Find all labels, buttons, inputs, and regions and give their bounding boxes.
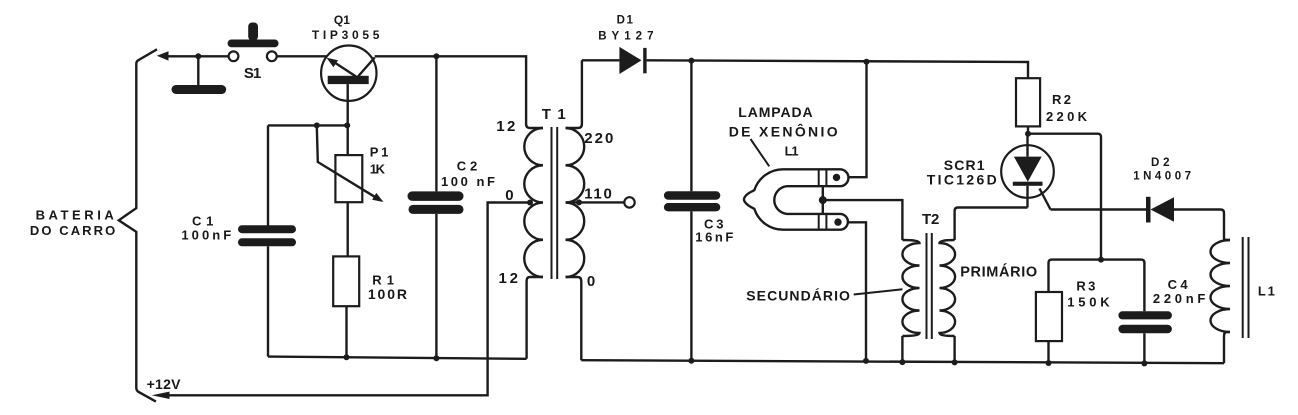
node trigger junction bbox=[819, 196, 827, 204]
svg-text:R3: R3 bbox=[1076, 279, 1095, 294]
svg-text:L1: L1 bbox=[785, 144, 799, 159]
wire top-left to S1 bbox=[162, 55, 229, 57]
svg-text:DE XENÔNIO: DE XENÔNIO bbox=[729, 123, 838, 140]
wire L1 bottom bbox=[1224, 332, 1230, 363]
svg-text:C1: C1 bbox=[192, 213, 213, 228]
svg-text:T1: T1 bbox=[542, 106, 566, 123]
terminal open circle 110 bbox=[624, 197, 634, 207]
T2 core bbox=[926, 233, 928, 339]
wire D2 to L1 coil bbox=[1174, 210, 1230, 241]
wire T2 primary top to SCR cathode bbox=[955, 208, 1028, 241]
wire trigger to T2 secondary bbox=[823, 200, 903, 240]
node junction at terminal stem bbox=[195, 53, 201, 59]
svg-text:D1: D1 bbox=[617, 15, 634, 27]
svg-text:Q1: Q1 bbox=[334, 13, 350, 27]
svg-text:L1: L1 bbox=[1258, 283, 1275, 298]
node T1 110 tap bbox=[576, 199, 582, 205]
wire T1 secondary bottom to rail bbox=[566, 277, 582, 360]
wire T1 left bottom to rail bbox=[527, 277, 543, 359]
node wiper junction bbox=[314, 122, 320, 128]
svg-text:1N4007: 1N4007 bbox=[1133, 171, 1191, 183]
svg-text:T2: T2 bbox=[922, 211, 939, 228]
svg-text:110: 110 bbox=[584, 186, 612, 203]
svg-text:0: 0 bbox=[505, 187, 513, 204]
svg-text:16nF: 16nF bbox=[695, 230, 733, 245]
node R1 bottom bbox=[344, 354, 350, 360]
resistor R1 100R bbox=[333, 256, 359, 306]
node T1 center tap left bbox=[527, 200, 533, 206]
SCR1 TIC126D bbox=[1001, 134, 1054, 210]
node T2 primary bottom bbox=[952, 359, 958, 365]
T1 core bbox=[551, 127, 553, 279]
wire R3 to C4 top bbox=[1049, 260, 1145, 312]
arrow +12V to battery bbox=[152, 392, 170, 399]
svg-text:220nF: 220nF bbox=[1153, 291, 1205, 306]
node lamp bottom bbox=[863, 358, 869, 364]
wire lamp top electrode bbox=[848, 62, 866, 178]
resistor R3 150K bbox=[1036, 292, 1062, 341]
svg-text:C4: C4 bbox=[1168, 277, 1189, 292]
L1 core bbox=[1242, 237, 1244, 338]
diode D1 BY127 bbox=[582, 59, 620, 61]
svg-text:BY127: BY127 bbox=[598, 30, 653, 42]
bottom rail left bbox=[268, 357, 527, 359]
xenon flash tube L1 bbox=[744, 169, 848, 229]
svg-text:S1: S1 bbox=[244, 65, 261, 82]
gate wire to D2 bbox=[1051, 208, 1147, 210]
transformer T2 secondary winding bbox=[902, 240, 919, 336]
node R2 bottom / SCR anode bbox=[1025, 131, 1031, 137]
wire 110 tap bbox=[566, 201, 624, 203]
transformer T1 secondary winding (right) bbox=[566, 128, 585, 277]
wire T1 secondary top to D1 bbox=[566, 60, 582, 128]
svg-text:+12V: +12V bbox=[147, 376, 182, 392]
node C2 bottom bbox=[433, 355, 439, 361]
node T2 secondary bottom bbox=[899, 359, 905, 365]
svg-text:D2: D2 bbox=[1151, 157, 1170, 169]
svg-text:PRIMÁRIO: PRIMÁRIO bbox=[960, 264, 1037, 281]
arrow to battery (top) bbox=[157, 51, 169, 60]
svg-text:BATERIA: BATERIA bbox=[36, 208, 115, 223]
svg-text:DO CARRO: DO CARRO bbox=[30, 223, 115, 238]
svg-text:150K: 150K bbox=[1067, 294, 1110, 309]
wire Q1 base down bbox=[347, 84, 349, 125]
svg-text:100R: 100R bbox=[368, 286, 407, 302]
node C2 top junction bbox=[433, 53, 439, 59]
node C3 bottom bbox=[688, 358, 694, 364]
wire lamp trigger bbox=[822, 185, 824, 214]
battery bracket BATERIA DO CARRO bbox=[119, 49, 157, 401]
svg-text:12: 12 bbox=[496, 118, 515, 135]
pointer line to lamp bbox=[751, 139, 770, 166]
svg-text:100nF: 100nF bbox=[181, 228, 231, 243]
transformer T2 primary winding bbox=[940, 240, 956, 336]
potentiometer P1 1K bbox=[335, 155, 362, 202]
svg-text:P1: P1 bbox=[370, 144, 389, 159]
wire T2 secondary bottom bbox=[901, 336, 903, 362]
wire T2 primary bottom bbox=[953, 336, 955, 362]
svg-text:220: 220 bbox=[584, 130, 613, 147]
capacitor C2 100nF bbox=[435, 56, 437, 191]
diode D2 1N4007 bbox=[1146, 197, 1151, 223]
wire Q1 collector to T1 bbox=[375, 56, 543, 128]
capacitor C4 220nF bbox=[1118, 311, 1172, 319]
node C4 bottom bbox=[1141, 360, 1147, 366]
switch S1 pushbutton bbox=[229, 51, 239, 61]
node base junction bbox=[344, 122, 350, 128]
wire lamp bottom electrode bbox=[848, 222, 866, 361]
terminal lug symbol bbox=[197, 56, 199, 85]
node C3 top bbox=[688, 58, 694, 64]
svg-text:12: 12 bbox=[499, 270, 519, 287]
wire anode node to R3/C4 node bbox=[1028, 134, 1101, 260]
svg-text:220K: 220K bbox=[1046, 109, 1088, 124]
wire base node horizontal bbox=[268, 124, 348, 126]
pointer line to T2 secondary bbox=[854, 289, 903, 294]
bottom rail right bbox=[581, 360, 1224, 363]
svg-text:100 nF: 100 nF bbox=[441, 174, 495, 189]
svg-text:LAMPADA: LAMPADA bbox=[738, 104, 812, 120]
svg-text:C2: C2 bbox=[457, 158, 478, 173]
transformer T1 primary winding (left) bbox=[524, 128, 543, 277]
wire 0-tap to +12V rail bbox=[169, 203, 531, 396]
resistor R2 220K bbox=[1016, 78, 1040, 126]
svg-text:R2: R2 bbox=[1052, 92, 1071, 107]
wire S1 to Q1 emitter bbox=[277, 55, 327, 57]
node R3/C4 top bbox=[1098, 257, 1104, 263]
transistor Q1 TIP3055 bbox=[321, 45, 376, 100]
svg-text:TIP3055: TIP3055 bbox=[312, 28, 380, 42]
capacitor C3 16nF bbox=[690, 61, 692, 192]
node lamp top bbox=[864, 59, 870, 65]
pickup coil L1 bbox=[1211, 240, 1231, 332]
svg-text:TIC126D: TIC126D bbox=[927, 171, 997, 187]
svg-text:1K: 1K bbox=[370, 161, 386, 176]
node R3 bottom bbox=[1046, 360, 1052, 366]
capacitor C1 100nF bbox=[267, 125, 269, 226]
svg-text:SECUNDÁRIO: SECUNDÁRIO bbox=[746, 288, 850, 304]
svg-text:0: 0 bbox=[587, 273, 595, 290]
wire D1 to R2 top bbox=[647, 60, 1028, 78]
